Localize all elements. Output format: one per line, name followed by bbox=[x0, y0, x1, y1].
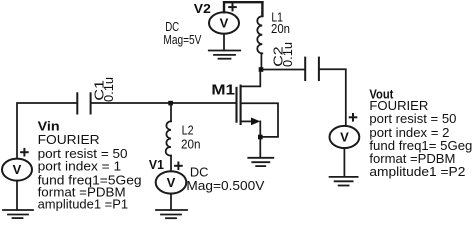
transistor M1 gate bar bbox=[235, 88, 237, 122]
svg-text:port index = 1: port index = 1 bbox=[38, 160, 122, 174]
plus V2 bbox=[229, 4, 236, 11]
wire source junction to ground bbox=[259, 139, 261, 157]
wire junction to L2 bbox=[170, 105, 172, 121]
svg-text:20n: 20n bbox=[181, 138, 201, 152]
svg-text:port resist = 50: port resist = 50 bbox=[369, 112, 456, 126]
wire V2 top bbox=[224, 2, 262, 12]
svg-text:V2: V2 bbox=[194, 1, 211, 16]
svg-text:fund freq1= 5Geg: fund freq1= 5Geg bbox=[369, 139, 472, 153]
wire node to M1 drain bbox=[241, 72, 260, 87]
wire Vin top to gate net bbox=[17, 103, 76, 159]
svg-text:FOURIER: FOURIER bbox=[38, 133, 100, 147]
wire V2 to ground bbox=[223, 34, 225, 51]
wire L1 to node bbox=[260, 53, 262, 67]
source V2 bbox=[209, 12, 239, 33]
wire L2 to V1 bbox=[170, 156, 172, 172]
M1 bulk wire bbox=[241, 103, 278, 137]
M1 source wire bbox=[241, 120, 252, 122]
ground V2 bbox=[209, 51, 240, 59]
inductor L2 bbox=[166, 121, 171, 155]
wire source down bbox=[259, 121, 261, 135]
ground Vin bbox=[3, 210, 33, 218]
svg-text:V: V bbox=[340, 130, 349, 145]
node junction gate/L2 bbox=[168, 101, 173, 106]
M1 source arrow bbox=[251, 118, 260, 126]
svg-text:DC: DC bbox=[190, 166, 209, 180]
svg-text:format =PDBM: format =PDBM bbox=[369, 152, 455, 166]
inductor L1 bbox=[257, 16, 262, 53]
svg-text:M1: M1 bbox=[211, 82, 235, 99]
svg-text:V: V bbox=[167, 175, 176, 190]
svg-text:V: V bbox=[13, 162, 22, 177]
svg-text:L2: L2 bbox=[182, 124, 194, 138]
wire Vin to ground bbox=[16, 181, 18, 210]
node source junction bbox=[258, 135, 263, 140]
plus Vin bbox=[21, 149, 28, 156]
ground V1 bbox=[156, 210, 187, 218]
node drain junction bbox=[259, 67, 264, 72]
svg-text:0.1u: 0.1u bbox=[102, 77, 116, 102]
svg-text:port index = 2: port index = 2 bbox=[369, 126, 449, 140]
source V1 bbox=[156, 171, 187, 193]
ground M1 source bbox=[248, 158, 273, 166]
plus Vout bbox=[350, 114, 357, 121]
svg-text:Vin: Vin bbox=[38, 119, 60, 134]
svg-text:Mag=5V: Mag=5V bbox=[163, 33, 202, 47]
svg-text:Mag=0.500V: Mag=0.500V bbox=[186, 179, 265, 193]
svg-text:0.1u: 0.1u bbox=[281, 42, 295, 67]
source Vout bbox=[330, 126, 360, 148]
plus V1 bbox=[175, 163, 182, 170]
capacitor C1 bbox=[77, 93, 90, 113]
wire C2 to Vout bbox=[320, 69, 346, 126]
svg-text:FOURIER: FOURIER bbox=[369, 99, 428, 113]
wire C1 to M1 gate bbox=[92, 102, 236, 104]
ground Vout bbox=[330, 177, 358, 186]
svg-text:amplitude1 =P1: amplitude1 =P1 bbox=[38, 198, 129, 212]
wire Vout to ground bbox=[343, 148, 345, 177]
svg-text:V: V bbox=[220, 16, 229, 31]
transistor M1 channel bar bbox=[240, 86, 242, 124]
svg-text:DC: DC bbox=[165, 20, 179, 34]
wire node to C2 bbox=[263, 69, 304, 71]
wire V1 to ground bbox=[170, 194, 172, 210]
wire top to L1 bbox=[261, 2, 263, 16]
svg-text:20n: 20n bbox=[271, 22, 290, 36]
svg-text:V1: V1 bbox=[149, 157, 164, 172]
svg-text:amplitude1 =P2: amplitude1 =P2 bbox=[369, 165, 465, 179]
source Vin bbox=[2, 159, 32, 181]
capacitor C2 bbox=[305, 58, 319, 80]
